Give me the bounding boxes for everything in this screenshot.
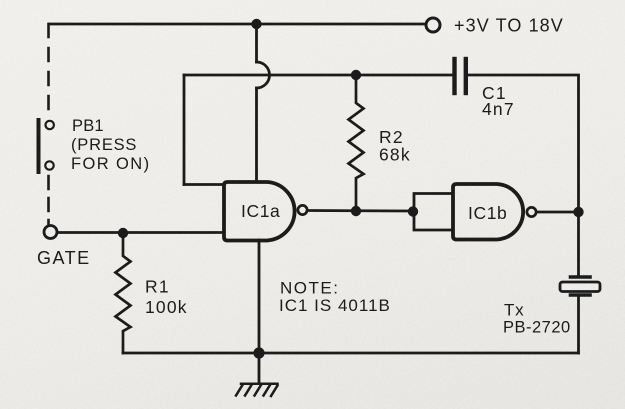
wire: oscillator top wire to C1 xyxy=(184,74,453,77)
NAND gate IC1a xyxy=(224,182,295,241)
terminal: GATE open circle xyxy=(44,226,57,239)
label: NOTE IC1 IS 4011B xyxy=(279,279,391,316)
NAND gate IC1b xyxy=(453,184,523,240)
node: junction dot IC1b input xyxy=(408,206,418,216)
wire: dashed link PB1 to GATE xyxy=(47,176,50,225)
node: junction dot output node xyxy=(573,207,583,217)
wire: feedback vertical at x=184 xyxy=(183,75,186,185)
switch PB1 bottom contact xyxy=(45,161,53,169)
ground symbol xyxy=(236,384,278,396)
wire: vertical from hop to IC1a top xyxy=(255,88,258,182)
node: junction dot R2 top xyxy=(351,70,361,80)
bubble: IC1b output inverter circle xyxy=(527,207,536,216)
wire: GATE to IC1a lower input xyxy=(57,231,224,234)
label: R2 68k xyxy=(379,127,411,165)
label: Tx PB-2720 xyxy=(503,301,571,337)
switch PB1 actuator bar xyxy=(37,120,41,172)
terminal: +3V supply open circle xyxy=(426,18,440,32)
resistor R1 100k xyxy=(116,233,131,353)
wire: transducer to bottom rail xyxy=(577,297,580,353)
label: PB1 (PRESS FOR ON) xyxy=(71,117,150,173)
paper texture overlay (decorative) xyxy=(0,0,1,1)
wire: top supply rail xyxy=(49,23,425,26)
label: R1 100k xyxy=(145,277,188,318)
transducer Tx PB-2720 xyxy=(560,277,600,295)
wire: IC1b output to right rail xyxy=(537,211,579,214)
wire: IC1b tied inputs loop xyxy=(414,194,453,231)
wire: bottom rail xyxy=(123,352,579,355)
wire: stub to ground symbol xyxy=(258,353,261,384)
wire: IC1a bottom pin to bottom rail xyxy=(258,240,261,353)
wire: feedback horizontal into IC1a upper input xyxy=(184,183,224,186)
wire: dashed link from rail to PB1 xyxy=(47,24,50,110)
wire: vertical from supply dot down to hop xyxy=(255,24,258,62)
wire: right rail down to transducer xyxy=(577,212,580,276)
bubble: IC1a output inverter circle xyxy=(298,205,307,214)
wire: IC1a output to IC1b input xyxy=(308,209,414,212)
node: supply junction dot xyxy=(251,19,261,29)
wire: C1 right plate to right rail corner xyxy=(468,75,579,212)
wire: hop over feedback wire xyxy=(257,62,270,88)
node: junction dot GATE/R1 xyxy=(118,228,128,238)
node: ground junction dot xyxy=(253,347,264,358)
label: C1 4n7 xyxy=(482,83,515,119)
capacitor C1 plates xyxy=(455,59,466,93)
switch PB1 top contact xyxy=(46,121,54,129)
resistor R2 68k xyxy=(349,75,364,211)
node: junction dot R2 bottom xyxy=(351,206,361,216)
